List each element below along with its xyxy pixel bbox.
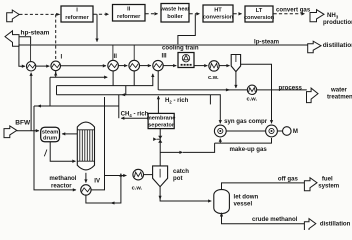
svg-text:LT: LT xyxy=(256,8,263,14)
svg-text:distillation: distillation xyxy=(323,42,352,49)
svg-text:I: I xyxy=(61,54,63,61)
svg-text:hp-steam: hp-steam xyxy=(21,30,50,37)
svg-text:fuel: fuel xyxy=(322,176,333,183)
svg-text:catch: catch xyxy=(173,168,189,175)
svg-text:lp-steam: lp-steam xyxy=(254,38,280,45)
svg-text:distillation: distillation xyxy=(320,221,351,228)
svg-text:HT: HT xyxy=(214,8,222,14)
svg-text:M: M xyxy=(293,128,298,135)
svg-text:BFW: BFW xyxy=(15,119,31,126)
svg-text:H2 - rich: H2 - rich xyxy=(165,97,189,104)
svg-text:seperator: seperator xyxy=(148,122,175,128)
svg-text:make-up gas: make-up gas xyxy=(230,146,268,153)
svg-text:CH4 - rich: CH4 - rich xyxy=(121,111,149,118)
svg-text:reformer: reformer xyxy=(65,15,89,21)
svg-text:methanol: methanol xyxy=(49,175,76,182)
svg-text:crude methanol: crude methanol xyxy=(252,216,298,223)
svg-text:production: production xyxy=(323,19,352,26)
svg-text:boiler: boiler xyxy=(167,14,183,20)
svg-text:process: process xyxy=(279,84,303,91)
svg-text:conversion: conversion xyxy=(244,15,275,21)
svg-text:reactor: reactor xyxy=(51,183,72,190)
svg-text:c.w.: c.w. xyxy=(132,186,143,192)
svg-text:treatment: treatment xyxy=(327,94,352,101)
svg-text:c.w.: c.w. xyxy=(247,96,258,102)
svg-text:II: II xyxy=(127,7,131,13)
svg-text:let down: let down xyxy=(234,193,259,200)
svg-text:cooling train: cooling train xyxy=(162,44,199,51)
svg-text:steam: steam xyxy=(42,129,58,135)
svg-text:system: system xyxy=(318,183,340,190)
svg-text:membrane: membrane xyxy=(147,116,176,122)
svg-text:pot: pot xyxy=(173,175,182,182)
svg-text:water: water xyxy=(330,87,348,94)
svg-text:vessel: vessel xyxy=(234,201,253,208)
svg-text:III: III xyxy=(162,53,167,60)
svg-text:convert gas: convert gas xyxy=(276,6,311,13)
svg-text:off gas: off gas xyxy=(278,175,299,182)
svg-text:waste heat: waste heat xyxy=(159,7,189,13)
svg-text:reformer: reformer xyxy=(117,14,141,20)
svg-text:drum: drum xyxy=(43,136,57,142)
svg-text:IV: IV xyxy=(94,177,101,184)
svg-text:conversion: conversion xyxy=(203,15,234,21)
svg-text:syn gas compr: syn gas compr xyxy=(224,118,268,125)
svg-text:II: II xyxy=(114,53,118,60)
svg-text:c.w.: c.w. xyxy=(208,75,219,81)
